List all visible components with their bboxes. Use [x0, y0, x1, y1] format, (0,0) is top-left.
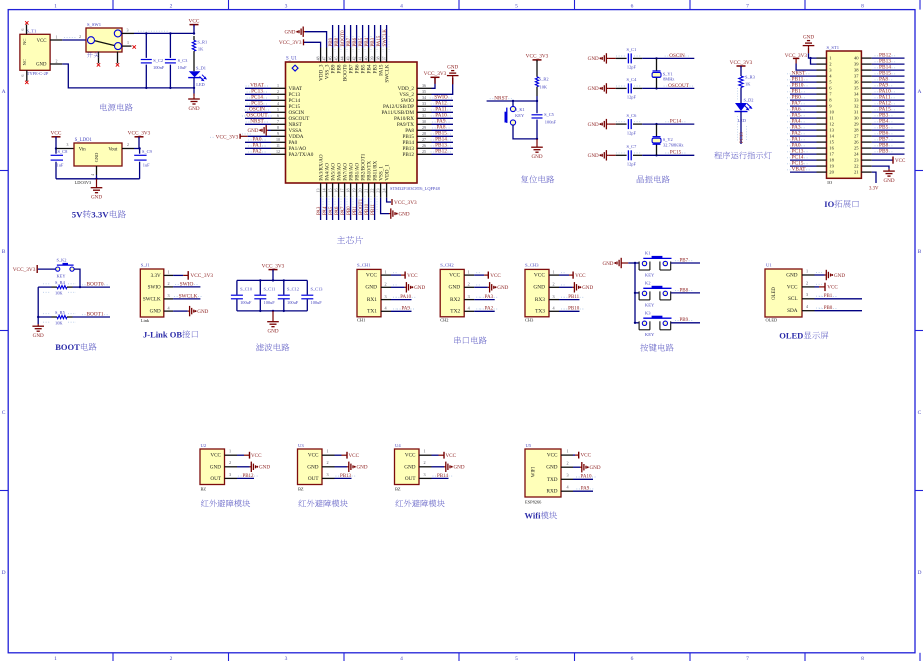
svg-text:VCC: VCC: [37, 39, 47, 44]
svg-text:PA6: PA6: [335, 206, 340, 215]
svg-text:C: C: [918, 410, 922, 416]
svg-text:16: 16: [829, 146, 834, 151]
svg-text:VDD_1: VDD_1: [384, 164, 390, 181]
svg-text:BOOT: BOOT: [55, 342, 80, 352]
svg-text:GND: GND: [197, 309, 208, 315]
svg-text:NRST: NRST: [250, 119, 264, 125]
svg-text:S_C7: S_C7: [627, 144, 638, 149]
svg-text:23: 23: [375, 189, 380, 193]
svg-text:S_CH3: S_CH3: [525, 263, 539, 268]
svg-text:3: 3: [423, 472, 425, 477]
svg-text:38: 38: [376, 56, 381, 60]
svg-text:11: 11: [276, 143, 280, 148]
svg-text:PB13: PB13: [340, 474, 352, 479]
svg-text:VCC: VCC: [575, 273, 586, 279]
svg-text:KEY: KEY: [515, 113, 525, 118]
svg-text:28: 28: [854, 128, 859, 133]
svg-text:S_C10: S_C10: [240, 287, 253, 292]
svg-text:1: 1: [423, 449, 425, 454]
svg-text:LED: LED: [738, 118, 747, 123]
svg-text:B: B: [918, 249, 922, 255]
svg-text:S_C12: S_C12: [287, 287, 299, 292]
svg-text:GND: GND: [150, 309, 161, 315]
svg-text:2: 2: [468, 282, 470, 287]
svg-text:PB11: PB11: [371, 204, 376, 215]
svg-text:GND: GND: [94, 153, 99, 163]
svg-text:SCL: SCL: [788, 296, 798, 302]
svg-text:GND: GND: [414, 285, 425, 291]
svg-text:3: 3: [229, 472, 231, 477]
svg-text:29: 29: [422, 125, 426, 130]
svg-text:OSCOUT: OSCOUT: [668, 83, 690, 89]
svg-text:2: 2: [79, 34, 81, 39]
svg-text:22: 22: [369, 189, 374, 193]
svg-text:2: 2: [326, 460, 328, 465]
svg-text:2: 2: [552, 282, 554, 287]
svg-text:3.3V: 3.3V: [869, 187, 879, 192]
svg-text:TX3: TX3: [535, 309, 545, 315]
svg-text:VCC: VCC: [407, 273, 418, 279]
svg-text:100nF: 100nF: [153, 65, 165, 70]
svg-text:VCC: VCC: [581, 453, 592, 459]
svg-text:3: 3: [384, 294, 386, 299]
svg-text:VCC: VCC: [446, 453, 457, 459]
svg-text:46: 46: [328, 56, 333, 60]
svg-text:KEY: KEY: [645, 302, 655, 307]
svg-text:PB1: PB1: [824, 294, 833, 299]
svg-text:U5: U5: [526, 443, 532, 448]
svg-text:VCC: VCC: [349, 453, 360, 459]
svg-text:33: 33: [854, 98, 859, 103]
svg-text:27: 27: [422, 137, 426, 142]
svg-text:S_ST1: S_ST1: [827, 45, 840, 50]
svg-text:2: 2: [229, 460, 231, 465]
svg-text:SWCLK: SWCLK: [143, 296, 161, 302]
svg-text:8: 8: [277, 125, 279, 130]
svg-text:PB4: PB4: [365, 37, 370, 46]
svg-text:PB12: PB12: [242, 474, 254, 479]
svg-text:4: 4: [400, 656, 403, 661]
svg-text:2: 2: [277, 89, 279, 94]
svg-text:OUT: OUT: [210, 476, 221, 482]
svg-text:VCC_3V3: VCC_3V3: [279, 40, 302, 46]
svg-text:GND: GND: [588, 86, 599, 92]
svg-text:2: 2: [170, 4, 173, 10]
svg-text:12pF: 12pF: [627, 162, 637, 167]
svg-text:TYPE-C-2P: TYPE-C-2P: [27, 71, 49, 76]
svg-text:VCC: VCC: [490, 273, 501, 279]
svg-text:S_K2: S_K2: [57, 257, 67, 262]
svg-text:6: 6: [631, 4, 634, 10]
svg-text:VCC_3V3: VCC_3V3: [216, 135, 239, 141]
svg-text:100nF: 100nF: [545, 120, 557, 125]
svg-text:SWCLK: SWCLK: [384, 64, 390, 82]
svg-text:15: 15: [327, 189, 332, 193]
svg-text:GND: GND: [582, 285, 593, 291]
svg-text:30: 30: [422, 119, 426, 124]
svg-text:9: 9: [277, 131, 279, 136]
svg-text:12: 12: [276, 149, 280, 154]
svg-text:2: 2: [423, 460, 425, 465]
svg-text:35: 35: [854, 86, 859, 91]
svg-text:VCC: VCC: [827, 285, 838, 291]
svg-text:5: 5: [515, 656, 518, 661]
svg-text:S_C8: S_C8: [58, 149, 69, 154]
svg-text:12: 12: [829, 122, 834, 127]
svg-text:VCC: VCC: [895, 159, 906, 164]
svg-text:S_C11: S_C11: [264, 287, 276, 292]
svg-text:2: 2: [167, 281, 169, 286]
svg-text:12pF: 12pF: [627, 130, 637, 135]
svg-text:40: 40: [854, 56, 859, 61]
svg-text:33: 33: [422, 101, 426, 106]
svg-text:KEY: KEY: [645, 332, 655, 337]
svg-text:4: 4: [400, 4, 403, 10]
svg-text:2: 2: [566, 461, 568, 466]
svg-text:VCC_3V3: VCC_3V3: [730, 60, 753, 66]
svg-text:PB0: PB0: [824, 306, 833, 311]
svg-text:22: 22: [854, 164, 859, 169]
svg-text:GND: GND: [533, 285, 545, 291]
svg-text:BZ: BZ: [395, 486, 401, 491]
svg-text:10K: 10K: [540, 84, 548, 89]
svg-text:8MHz: 8MHz: [663, 77, 674, 82]
svg-text:A: A: [918, 89, 922, 95]
svg-text:100uF: 100uF: [264, 300, 276, 305]
svg-text:TXD: TXD: [547, 477, 558, 483]
svg-text:GND: GND: [267, 329, 278, 335]
svg-text:S_C13: S_C13: [311, 287, 324, 292]
svg-text:PB1: PB1: [353, 206, 358, 215]
svg-text:1: 1: [127, 40, 129, 45]
svg-text:S_R5: S_R5: [55, 310, 66, 315]
svg-text:PB12: PB12: [402, 152, 414, 158]
svg-text:GND: GND: [365, 285, 377, 291]
svg-text:GND: GND: [449, 285, 461, 291]
svg-text:8: 8: [861, 4, 864, 10]
svg-text:VCC: VCC: [366, 272, 377, 278]
svg-text:1K: 1K: [745, 82, 751, 87]
svg-text:S_R1: S_R1: [197, 39, 207, 44]
svg-text:10K: 10K: [55, 320, 63, 325]
svg-text:GND: GND: [399, 211, 410, 217]
svg-text:RX1: RX1: [367, 297, 377, 303]
svg-text:10: 10: [276, 137, 280, 142]
svg-text:CH1: CH1: [357, 318, 365, 323]
svg-text:36: 36: [854, 80, 859, 85]
svg-text:5: 5: [515, 4, 518, 10]
svg-text:GND: GND: [404, 464, 415, 470]
svg-text:VCC: VCC: [189, 18, 200, 24]
svg-text:37: 37: [854, 74, 859, 79]
svg-text:LED: LED: [196, 82, 205, 87]
svg-text:34: 34: [422, 95, 426, 100]
svg-text:10K: 10K: [55, 291, 63, 296]
svg-text:VCC_3V3: VCC_3V3: [424, 71, 447, 77]
svg-text:U2: U2: [201, 443, 207, 448]
svg-text:PB0: PB0: [347, 206, 352, 215]
svg-text:7: 7: [746, 656, 749, 661]
svg-text:PC14: PC14: [670, 119, 682, 125]
svg-text:6: 6: [21, 28, 25, 30]
svg-text:28: 28: [422, 131, 426, 136]
svg-text:VCC: VCC: [308, 453, 319, 459]
svg-text:GND: GND: [546, 465, 557, 471]
svg-text:OSCIN: OSCIN: [669, 53, 685, 59]
svg-text:IO: IO: [827, 180, 833, 185]
svg-text:LDO3V3: LDO3V3: [75, 180, 92, 185]
svg-text:1: 1: [54, 4, 57, 10]
svg-text:S_C9: S_C9: [142, 149, 153, 154]
svg-text:TX1: TX1: [367, 309, 377, 315]
svg-text:42: 42: [352, 56, 357, 60]
svg-text:1: 1: [54, 656, 57, 661]
svg-text:1: 1: [56, 34, 58, 39]
svg-text:BOOT0: BOOT0: [341, 30, 346, 47]
svg-text:1: 1: [326, 449, 328, 454]
svg-text:1: 1: [566, 449, 568, 454]
svg-text:3: 3: [127, 28, 129, 33]
svg-text:2: 2: [56, 58, 58, 63]
svg-text:GND: GND: [602, 261, 613, 267]
svg-text:13: 13: [829, 128, 834, 133]
svg-text:VCC: VCC: [787, 284, 798, 290]
svg-text:PC13: PC13: [740, 132, 745, 143]
svg-text:4: 4: [91, 174, 95, 176]
svg-text:14: 14: [321, 189, 326, 193]
svg-text:SWCLK: SWCLK: [383, 29, 388, 47]
svg-text:VCC: VCC: [449, 272, 460, 278]
svg-text:GND: GND: [447, 65, 458, 71]
svg-text:1uF: 1uF: [57, 163, 64, 168]
svg-text:7: 7: [277, 119, 279, 124]
svg-text:NC: NC: [22, 39, 27, 45]
svg-text:18: 18: [829, 158, 834, 163]
svg-text:26: 26: [854, 140, 859, 145]
svg-text:GND: GND: [188, 106, 199, 112]
svg-text:S_C2: S_C2: [153, 58, 163, 63]
svg-text:S_C3: S_C3: [178, 58, 189, 63]
svg-text:1: 1: [552, 269, 554, 274]
svg-text:S_D2: S_D2: [744, 98, 754, 103]
svg-text:41: 41: [358, 56, 363, 60]
svg-text:10: 10: [829, 110, 834, 115]
svg-text:KEY: KEY: [57, 273, 67, 278]
svg-text:16: 16: [333, 189, 338, 193]
svg-text:34: 34: [854, 92, 859, 97]
svg-text:3: 3: [285, 656, 288, 661]
svg-text:J-Link OB: J-Link OB: [143, 329, 182, 339]
svg-text:PA15: PA15: [377, 35, 382, 46]
svg-text:BZ: BZ: [298, 486, 304, 491]
svg-text:S_J1: S_J1: [141, 263, 151, 268]
svg-text:S_R4: S_R4: [55, 280, 66, 285]
svg-text:GND: GND: [588, 122, 599, 128]
svg-text:37: 37: [382, 56, 387, 60]
svg-text:OLED: OLED: [779, 331, 803, 341]
svg-text:PC15: PC15: [670, 150, 682, 156]
svg-text:S_U1: S_U1: [286, 57, 298, 62]
svg-text:12pF: 12pF: [627, 95, 637, 100]
svg-text:WIFI: WIFI: [532, 466, 537, 477]
svg-text:27: 27: [854, 134, 859, 139]
svg-text:S_CH2: S_CH2: [440, 263, 454, 268]
svg-text:K2: K2: [645, 281, 651, 286]
svg-text:K3: K3: [645, 310, 651, 315]
svg-text:2: 2: [384, 282, 386, 287]
svg-text:PA2/TX/A0: PA2/TX/A0: [289, 152, 314, 158]
svg-text:ESP8266: ESP8266: [525, 499, 542, 504]
svg-text:RX2: RX2: [450, 297, 460, 303]
svg-text:12pF: 12pF: [627, 65, 637, 70]
svg-text:1K: 1K: [198, 47, 204, 52]
svg-text:VCC_3V3: VCC_3V3: [526, 54, 549, 60]
svg-text:U3: U3: [298, 443, 304, 448]
svg-text:GND: GND: [247, 128, 258, 134]
svg-text:4: 4: [277, 101, 279, 106]
svg-text:PA3: PA3: [317, 206, 322, 215]
svg-text:S_D1: S_D1: [196, 65, 206, 70]
svg-text:SWIO: SWIO: [180, 281, 194, 287]
svg-text:PA2: PA2: [485, 307, 494, 312]
svg-text:20: 20: [357, 189, 362, 193]
svg-text:5V: 5V: [72, 210, 83, 220]
svg-text:S_CH1: S_CH1: [357, 263, 371, 268]
svg-text:VCC: VCC: [405, 453, 416, 459]
svg-text:BOOT0: BOOT0: [86, 282, 103, 288]
svg-text:Link: Link: [141, 318, 150, 323]
svg-text:25: 25: [422, 149, 426, 154]
svg-text:B: B: [2, 249, 6, 255]
svg-text:NC: NC: [22, 59, 27, 65]
svg-text:GND: GND: [259, 465, 270, 471]
svg-text:Wifi: Wifi: [525, 511, 542, 521]
svg-text:S_T1: S_T1: [27, 28, 38, 33]
svg-text:15: 15: [829, 140, 834, 145]
svg-text:32: 32: [422, 107, 426, 112]
svg-text:19: 19: [829, 164, 834, 169]
svg-text:PB8: PB8: [680, 288, 689, 293]
svg-text:A: A: [2, 89, 6, 95]
svg-text:PA7: PA7: [341, 206, 346, 215]
svg-text:IO: IO: [824, 199, 834, 209]
svg-text:BOOT1: BOOT1: [359, 198, 364, 215]
svg-text:GND: GND: [588, 153, 599, 159]
svg-text:GND: GND: [883, 178, 894, 184]
svg-text:PA5: PA5: [329, 206, 334, 215]
svg-text:PB3: PB3: [371, 37, 376, 46]
svg-text:GND: GND: [33, 333, 44, 339]
svg-text:Vin: Vin: [79, 147, 87, 152]
svg-text:3: 3: [566, 473, 568, 478]
svg-text:17: 17: [339, 189, 344, 193]
svg-text:3: 3: [326, 472, 328, 477]
svg-text:1: 1: [229, 449, 231, 454]
svg-text:17: 17: [829, 152, 834, 157]
svg-text:PB14: PB14: [437, 474, 449, 479]
svg-text:PB7: PB7: [680, 258, 689, 263]
svg-text:45: 45: [334, 56, 339, 60]
svg-text:D: D: [2, 570, 6, 576]
svg-text:3: 3: [468, 294, 470, 299]
svg-text:PA10: PA10: [400, 295, 411, 300]
svg-text:GND: GND: [210, 464, 221, 470]
svg-text:VCC: VCC: [251, 453, 262, 459]
svg-text:39: 39: [370, 56, 375, 60]
svg-text:S_SW1: S_SW1: [87, 22, 102, 27]
svg-text:PA9: PA9: [581, 487, 590, 492]
svg-text:PB11: PB11: [568, 295, 579, 300]
svg-text:GND: GND: [36, 63, 47, 68]
svg-text:3.3V: 3.3V: [151, 273, 161, 279]
svg-text:VCC_3V3: VCC_3V3: [262, 263, 285, 269]
svg-text:14: 14: [829, 134, 834, 139]
svg-text:10uF: 10uF: [178, 65, 188, 70]
svg-text:GND: GND: [497, 285, 508, 291]
svg-text:1: 1: [384, 269, 386, 274]
svg-text:RX3: RX3: [535, 297, 545, 303]
svg-text:VCC_3V3: VCC_3V3: [190, 273, 213, 279]
svg-text:SDA: SDA: [787, 308, 798, 314]
svg-text:S_C1: S_C1: [627, 47, 637, 52]
svg-text:VCC: VCC: [210, 453, 221, 459]
svg-text:31: 31: [422, 113, 426, 118]
svg-text:U1: U1: [766, 262, 772, 267]
svg-text:35: 35: [422, 89, 426, 94]
svg-text:PA2: PA2: [253, 149, 262, 155]
svg-text:36: 36: [422, 83, 426, 88]
svg-text:48: 48: [316, 56, 321, 60]
svg-text:RXD: RXD: [547, 489, 558, 495]
svg-text:PA10: PA10: [581, 475, 592, 480]
svg-text:38: 38: [854, 68, 859, 73]
svg-text:Vout: Vout: [108, 147, 118, 152]
svg-text:3: 3: [806, 292, 808, 297]
svg-text:VCC_3V3: VCC_3V3: [394, 200, 417, 206]
svg-text:100uF: 100uF: [311, 300, 323, 305]
svg-text:OUT: OUT: [405, 476, 416, 482]
svg-text:S_C4: S_C4: [627, 77, 638, 82]
svg-text:21: 21: [363, 189, 368, 193]
svg-text:3: 3: [167, 293, 169, 298]
svg-text:6: 6: [21, 74, 25, 76]
svg-text:S_R3: S_R3: [745, 75, 756, 80]
svg-text:3: 3: [285, 4, 288, 10]
svg-text:PB12: PB12: [435, 149, 447, 155]
svg-text:SWCLK: SWCLK: [179, 293, 198, 299]
svg-text:PA3: PA3: [485, 295, 494, 300]
svg-text:3: 3: [66, 143, 68, 147]
svg-text:VCC: VCC: [51, 131, 62, 137]
svg-text:C: C: [2, 410, 6, 416]
svg-text:STM32F103C8T6_LQFP48: STM32F103C8T6_LQFP48: [390, 186, 441, 191]
svg-text:OLED: OLED: [772, 287, 777, 300]
svg-text:2: 2: [170, 656, 173, 661]
svg-text:PB8: PB8: [335, 37, 340, 46]
svg-text:44: 44: [340, 56, 345, 60]
svg-text:13: 13: [315, 189, 320, 193]
svg-text:3: 3: [277, 95, 279, 100]
svg-text:SWIO: SWIO: [148, 284, 161, 290]
svg-text:PB7: PB7: [347, 37, 352, 46]
svg-text:1uF: 1uF: [143, 163, 150, 168]
svg-text:PB10: PB10: [568, 307, 580, 312]
svg-text:32: 32: [854, 104, 859, 109]
svg-text:11: 11: [829, 116, 834, 121]
svg-text:BOOT1: BOOT1: [86, 311, 103, 317]
svg-text:1: 1: [806, 268, 808, 273]
svg-text:U4: U4: [395, 443, 401, 448]
